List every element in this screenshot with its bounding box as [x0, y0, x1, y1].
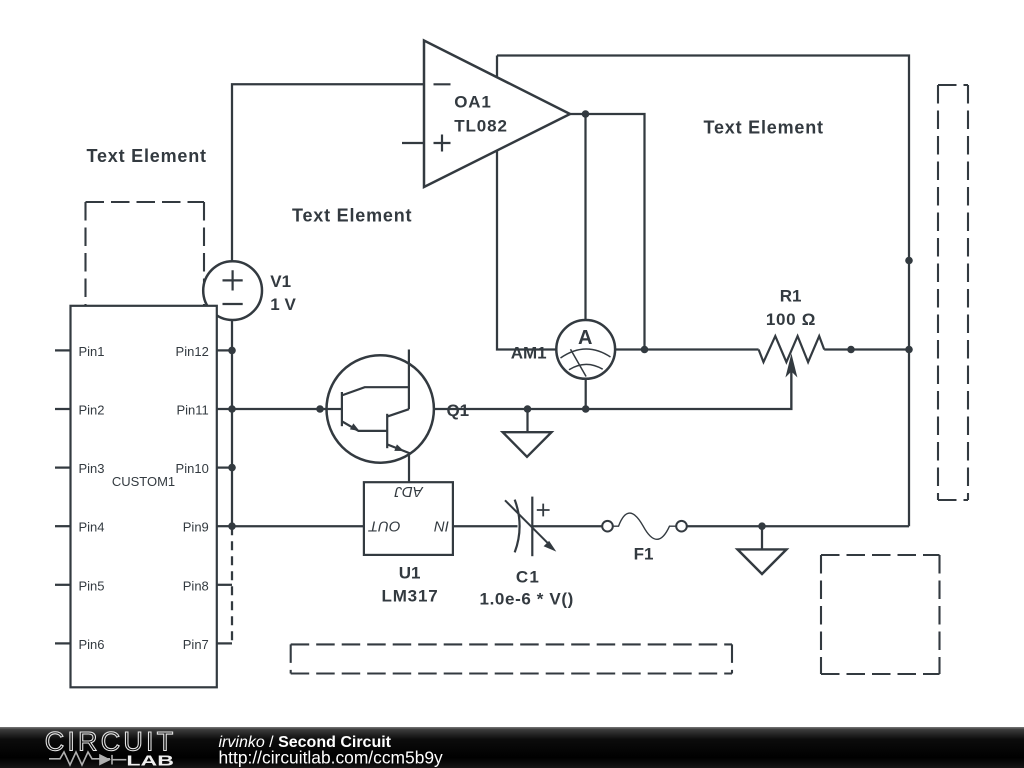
svg-text:Pin1: Pin1: [79, 344, 105, 359]
svg-text:Pin12: Pin12: [176, 344, 209, 359]
svg-text:TL082: TL082: [454, 116, 507, 135]
svg-text:Pin11: Pin11: [177, 403, 209, 418]
svg-text:Pin5: Pin5: [79, 578, 105, 593]
svg-text:Q1: Q1: [446, 401, 469, 420]
svg-text:Pin10: Pin10: [176, 461, 209, 476]
svg-text:V1: V1: [270, 272, 291, 291]
svg-text:C1: C1: [516, 567, 539, 586]
svg-text:ADJ: ADJ: [394, 483, 424, 500]
svg-text:Pin2: Pin2: [79, 403, 105, 418]
svg-text:http://circuitlab.com/ccm5b9y: http://circuitlab.com/ccm5b9y: [219, 748, 444, 768]
svg-text:AM1: AM1: [511, 343, 547, 362]
svg-text:Text Element: Text Element: [87, 146, 207, 166]
svg-text:LM317: LM317: [382, 587, 438, 606]
svg-text:Pin6: Pin6: [79, 637, 105, 652]
svg-text:1.0e-6 * V(): 1.0e-6 * V(): [480, 590, 574, 609]
svg-text:OA1: OA1: [454, 93, 491, 112]
svg-text:OUT: OUT: [367, 517, 401, 534]
svg-text:LAB: LAB: [126, 752, 174, 768]
svg-text:Text Element: Text Element: [292, 206, 412, 226]
svg-text:Pin7: Pin7: [183, 637, 209, 652]
svg-text:100 Ω: 100 Ω: [766, 310, 816, 329]
svg-text:CUSTOM1: CUSTOM1: [112, 474, 175, 489]
svg-text:Pin4: Pin4: [79, 520, 105, 535]
svg-text:R1: R1: [780, 287, 802, 306]
svg-text:Pin3: Pin3: [79, 461, 105, 476]
svg-text:1 V: 1 V: [270, 295, 296, 314]
svg-text:Pin9: Pin9: [183, 520, 209, 535]
svg-text:IN: IN: [434, 517, 449, 534]
svg-text:Text Element: Text Element: [704, 118, 824, 138]
svg-text:Pin8: Pin8: [183, 578, 209, 593]
svg-text:A: A: [578, 327, 592, 349]
svg-text:U1: U1: [399, 564, 421, 583]
svg-text:F1: F1: [634, 545, 654, 564]
